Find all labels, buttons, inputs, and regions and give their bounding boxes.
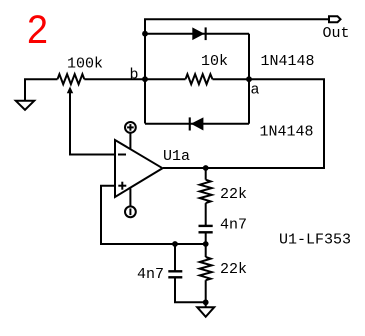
junction cap C2 top (172, 241, 178, 247)
wire cap C2 to ground node (175, 277, 206, 302)
op-amp U1a triangle (115, 140, 163, 197)
svg-text:b: b (130, 67, 139, 84)
output port flag (329, 16, 341, 22)
op-amp V+ pin (125, 122, 136, 150)
wire node a to right rail (163, 79, 324, 168)
svg-text:4n7: 4n7 (220, 216, 247, 233)
junction ground node (203, 299, 209, 305)
svg-text:10k: 10k (201, 53, 228, 70)
wire node to 22k lower (205, 244, 207, 257)
diode D1 1N4148 top (192, 27, 206, 40)
svg-text:U1-LF353: U1-LF353 (279, 231, 351, 248)
capacitor C2 4n7 plates (168, 271, 182, 277)
wire left ground to 100k (25, 79, 58, 101)
svg-text:22k: 22k (220, 186, 247, 203)
junction node top (142, 31, 148, 37)
wire cap C1 to node (205, 232, 207, 244)
capacitor C1 4n7 plates (199, 226, 213, 232)
svg-text:a: a (251, 82, 260, 99)
node b junction (142, 76, 148, 82)
wire right vertical of diode network (248, 34, 250, 124)
wire node b to 10k (145, 78, 186, 80)
wire 100k to node b (84, 78, 145, 80)
wire 22k to cap C1 (205, 203, 207, 226)
svg-text:22k: 22k (220, 261, 247, 278)
svg-text:1N4148: 1N4148 (261, 53, 315, 70)
node a junction (246, 76, 252, 82)
junction output node (203, 165, 209, 171)
svg-text:4n7: 4n7 (137, 266, 164, 283)
svg-text:U1a: U1a (163, 148, 190, 165)
svg-text:Out: Out (323, 25, 350, 42)
svg-text:100k: 100k (67, 56, 103, 73)
wire top diode branch (145, 33, 249, 35)
svg-text:2: 2 (27, 8, 48, 52)
potentiometer 100k body (58, 74, 85, 84)
wire top output run (145, 19, 329, 123)
diode D2 1N4148 bottom (189, 117, 204, 130)
ground bottom (197, 307, 214, 317)
potentiometer wiper arrow (67, 86, 73, 93)
wire 22k lower to ground node (205, 280, 207, 307)
wire output node to 22k (205, 168, 207, 180)
ground left (16, 101, 34, 110)
wire pot wiper to inverting input (70, 91, 115, 155)
resistor 22k lower body (200, 257, 212, 280)
op-amp plus input mark (118, 182, 126, 190)
op-amp minus input mark (118, 154, 126, 156)
wire cap C2 branch (174, 244, 176, 271)
svg-text:1N4148: 1N4148 (260, 124, 314, 141)
resistor 22k upper body (200, 180, 212, 203)
wire bottom diode branch (145, 123, 249, 125)
wire noninverting input run (101, 186, 206, 244)
wire 10k to node a (213, 78, 250, 80)
junction divider node (203, 241, 209, 247)
op-amp V- pin (125, 189, 136, 218)
resistor 10k body (186, 74, 213, 84)
